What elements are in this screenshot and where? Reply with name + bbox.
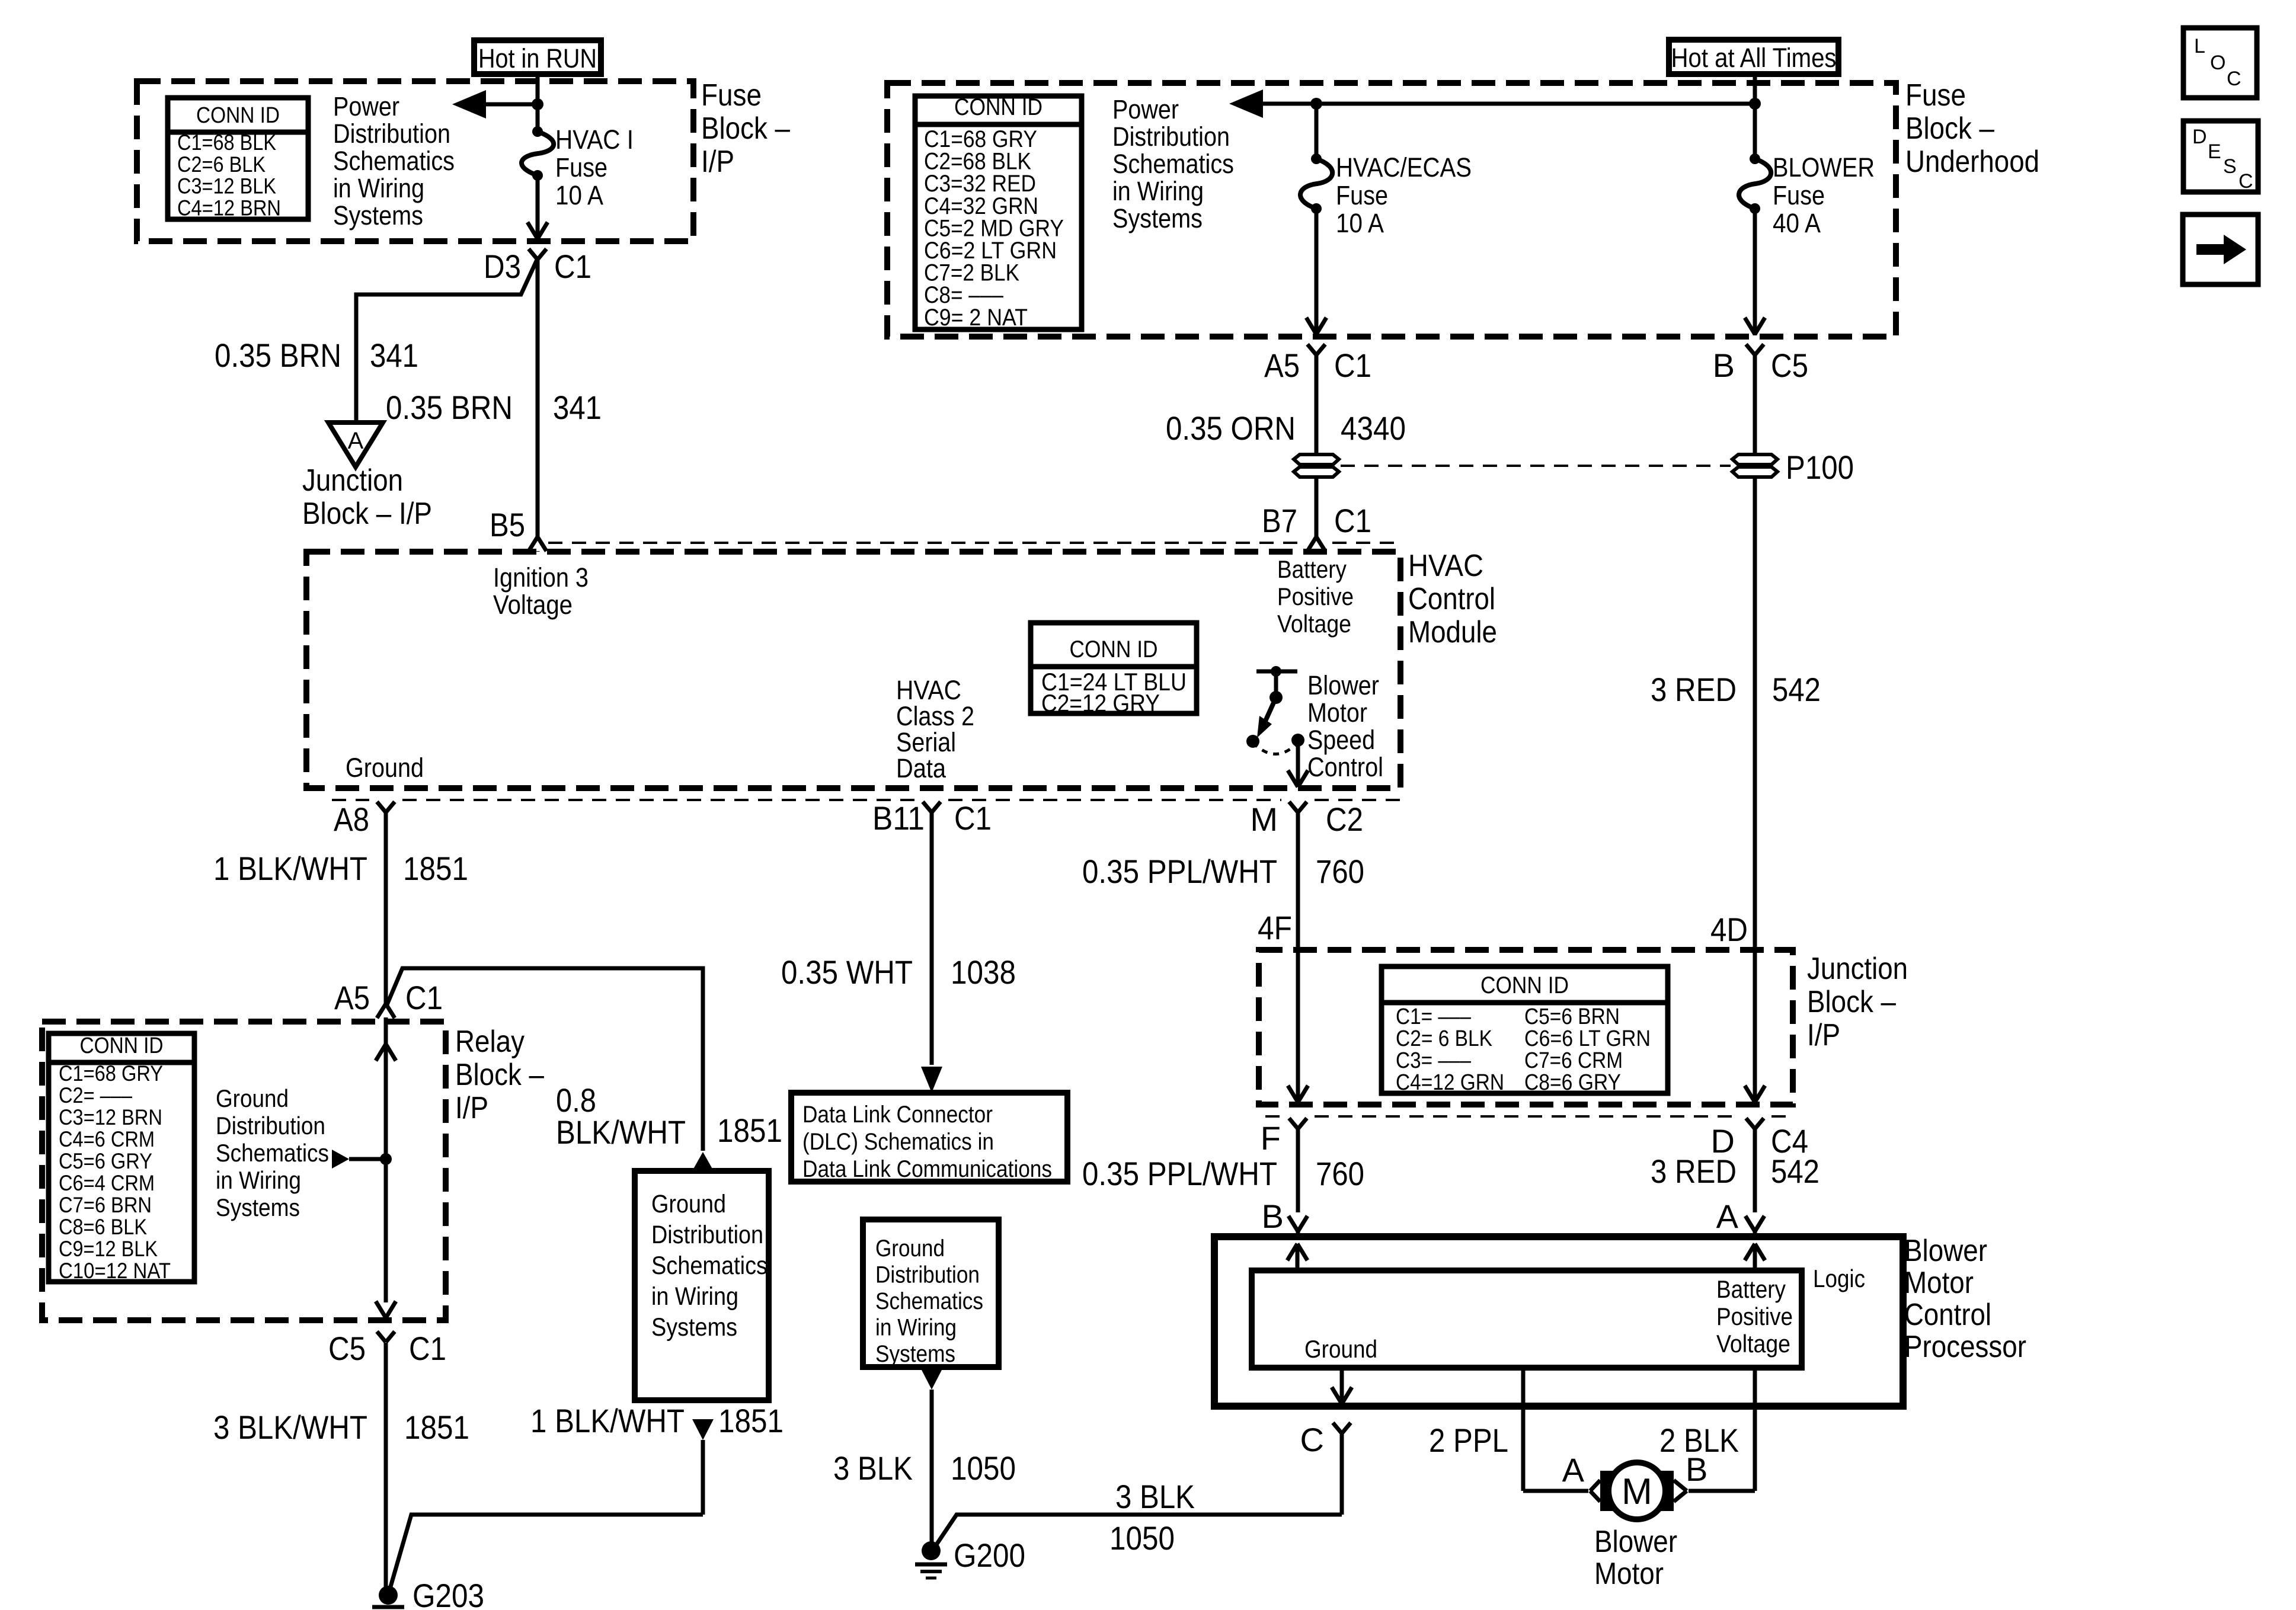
svg-text:Schematics: Schematics xyxy=(333,146,455,176)
svg-text:Systems: Systems xyxy=(1112,203,1203,233)
svg-text:Schematics: Schematics xyxy=(216,1139,329,1167)
svg-text:40 A: 40 A xyxy=(1773,208,1821,238)
svg-text:C1: C1 xyxy=(405,979,443,1016)
svg-text:Voltage: Voltage xyxy=(1716,1330,1790,1358)
svg-text:Systems: Systems xyxy=(875,1341,955,1367)
svg-text:1050: 1050 xyxy=(1109,1519,1175,1557)
svg-text:C5: C5 xyxy=(328,1330,366,1367)
svg-text:Ground: Ground xyxy=(651,1190,726,1218)
svg-text:Schematics: Schematics xyxy=(875,1288,983,1314)
svg-text:3 RED: 3 RED xyxy=(1651,671,1737,708)
svg-text:Distribution: Distribution xyxy=(651,1221,763,1249)
svg-text:Relay: Relay xyxy=(455,1025,525,1059)
svg-text:1038: 1038 xyxy=(951,953,1016,991)
svg-text:M: M xyxy=(1622,1471,1652,1512)
svg-text:C5=6 BRN: C5=6 BRN xyxy=(1524,1004,1620,1029)
svg-text:I/P: I/P xyxy=(455,1091,488,1125)
svg-text:Fuse: Fuse xyxy=(1905,78,1966,113)
svg-text:Voltage: Voltage xyxy=(493,590,573,620)
svg-text:542: 542 xyxy=(1772,671,1821,708)
svg-text:HVAC I: HVAC I xyxy=(555,124,634,155)
svg-text:HVAC/ECAS: HVAC/ECAS xyxy=(1336,152,1472,183)
svg-text:C2=6 BLK: C2=6 BLK xyxy=(177,152,266,177)
svg-text:D: D xyxy=(2192,126,2207,148)
svg-text:Ground: Ground xyxy=(216,1084,289,1112)
svg-text:B5: B5 xyxy=(490,506,525,543)
svg-text:Control: Control xyxy=(1904,1298,1991,1332)
svg-text:C2= –––: C2= ––– xyxy=(59,1083,132,1108)
svg-text:1851: 1851 xyxy=(404,1409,469,1446)
svg-text:C1= –––: C1= ––– xyxy=(1396,1004,1472,1029)
svg-text:Fuse: Fuse xyxy=(1773,180,1825,210)
svg-text:Blower: Blower xyxy=(1594,1525,1677,1559)
svg-text:Positive: Positive xyxy=(1277,582,1354,610)
svg-text:B11: B11 xyxy=(872,799,925,837)
svg-text:4F: 4F xyxy=(1258,909,1292,946)
svg-text:542: 542 xyxy=(1771,1153,1819,1190)
svg-text:P100: P100 xyxy=(1786,449,1854,486)
svg-text:3 BLK: 3 BLK xyxy=(833,1449,913,1487)
svg-text:F: F xyxy=(1261,1119,1281,1157)
svg-text:Block – I/P: Block – I/P xyxy=(302,497,432,531)
svg-text:BLK/WHT: BLK/WHT xyxy=(556,1113,686,1151)
svg-text:0.35 BRN: 0.35 BRN xyxy=(215,337,341,374)
svg-text:1050: 1050 xyxy=(951,1449,1016,1487)
svg-text:in Wiring: in Wiring xyxy=(216,1166,301,1194)
svg-text:C7=6 BRN: C7=6 BRN xyxy=(59,1193,152,1217)
svg-text:C8=6 BLK: C8=6 BLK xyxy=(59,1215,147,1239)
svg-text:Ground: Ground xyxy=(875,1235,945,1262)
svg-text:HVAC: HVAC xyxy=(1408,549,1483,583)
svg-text:D3: D3 xyxy=(484,248,521,285)
svg-text:1 BLK/WHT: 1 BLK/WHT xyxy=(213,850,367,887)
svg-text:Junction: Junction xyxy=(302,463,403,498)
svg-text:CONN ID: CONN ID xyxy=(80,1033,164,1058)
svg-text:Fuse: Fuse xyxy=(1336,180,1388,210)
svg-text:C1: C1 xyxy=(409,1330,446,1367)
svg-text:A: A xyxy=(1716,1198,1739,1235)
svg-text:Control: Control xyxy=(1408,582,1495,616)
svg-text:Data Link Communications: Data Link Communications xyxy=(802,1156,1052,1182)
svg-text:G200: G200 xyxy=(954,1537,1025,1574)
svg-text:Block –: Block – xyxy=(701,111,790,146)
svg-text:0.35 PPL/WHT: 0.35 PPL/WHT xyxy=(1082,1155,1277,1192)
svg-text:M: M xyxy=(1250,801,1278,838)
svg-text:E: E xyxy=(2208,140,2221,163)
svg-text:Power: Power xyxy=(1112,94,1179,124)
svg-text:in Wiring: in Wiring xyxy=(333,173,424,203)
svg-text:C3=12 BLK: C3=12 BLK xyxy=(177,174,276,199)
svg-text:C3= –––: C3= ––– xyxy=(1396,1048,1472,1073)
svg-text:Hot in RUN: Hot in RUN xyxy=(478,43,597,73)
svg-text:4340: 4340 xyxy=(1341,409,1406,447)
svg-text:C7=6 CRM: C7=6 CRM xyxy=(1524,1048,1623,1073)
svg-text:0.35 BRN: 0.35 BRN xyxy=(386,389,513,426)
svg-text:C9=12 BLK: C9=12 BLK xyxy=(59,1237,158,1261)
svg-text:C1=68 BLK: C1=68 BLK xyxy=(177,130,276,155)
svg-text:0.35 ORN: 0.35 ORN xyxy=(1166,409,1296,447)
svg-text:3 BLK/WHT: 3 BLK/WHT xyxy=(213,1409,367,1446)
svg-text:Battery: Battery xyxy=(1277,555,1347,583)
svg-text:3 RED: 3 RED xyxy=(1651,1153,1737,1190)
svg-text:Distribution: Distribution xyxy=(333,119,450,149)
svg-text:Positive: Positive xyxy=(1716,1302,1793,1330)
svg-text:C3=12 BRN: C3=12 BRN xyxy=(59,1105,162,1129)
svg-text:C: C xyxy=(2227,68,2241,90)
svg-text:Systems: Systems xyxy=(333,200,423,231)
svg-text:10 A: 10 A xyxy=(555,180,603,210)
svg-text:I/P: I/P xyxy=(1807,1018,1840,1052)
svg-text:1 BLK/WHT: 1 BLK/WHT xyxy=(530,1402,685,1439)
svg-text:341: 341 xyxy=(553,389,602,426)
svg-text:Processor: Processor xyxy=(1904,1330,2026,1364)
svg-text:1851: 1851 xyxy=(717,1112,782,1149)
svg-text:Distribution: Distribution xyxy=(1112,121,1230,152)
svg-text:Block –: Block – xyxy=(455,1058,544,1092)
svg-text:0.35 WHT: 0.35 WHT xyxy=(781,953,913,991)
svg-text:Systems: Systems xyxy=(651,1313,737,1342)
svg-text:B7: B7 xyxy=(1262,502,1297,539)
svg-text:760: 760 xyxy=(1316,1155,1364,1192)
svg-text:Data Link Connector: Data Link Connector xyxy=(802,1102,993,1128)
svg-text:Schematics: Schematics xyxy=(651,1251,768,1280)
svg-text:C6=4 CRM: C6=4 CRM xyxy=(59,1171,155,1195)
svg-text:C2= 6 BLK: C2= 6 BLK xyxy=(1396,1026,1492,1051)
svg-text:Logic: Logic xyxy=(1813,1265,1865,1292)
svg-text:in Wiring: in Wiring xyxy=(1112,176,1204,206)
svg-text:A5: A5 xyxy=(334,979,370,1016)
svg-text:3 BLK: 3 BLK xyxy=(1115,1478,1195,1515)
svg-text:G203: G203 xyxy=(412,1577,484,1610)
svg-text:Speed: Speed xyxy=(1307,725,1375,755)
svg-text:C4=12 GRN: C4=12 GRN xyxy=(1396,1070,1504,1095)
svg-text:C9= 2 NAT: C9= 2 NAT xyxy=(924,305,1028,331)
svg-text:in Wiring: in Wiring xyxy=(875,1315,957,1341)
svg-text:C5: C5 xyxy=(1771,347,1808,384)
svg-text:Ground: Ground xyxy=(346,753,424,783)
svg-text:C2=12 GRY: C2=12 GRY xyxy=(1041,689,1160,717)
svg-text:Hot at All Times: Hot at All Times xyxy=(1671,43,1837,73)
svg-text:Fuse: Fuse xyxy=(555,152,607,183)
svg-text:I/P: I/P xyxy=(701,145,734,179)
svg-text:C2: C2 xyxy=(1326,801,1363,838)
svg-text:L: L xyxy=(2194,35,2205,57)
svg-text:C4=6 CRM: C4=6 CRM xyxy=(59,1127,155,1151)
svg-text:760: 760 xyxy=(1316,853,1364,890)
svg-text:C8=6 GRY: C8=6 GRY xyxy=(1524,1070,1621,1095)
svg-text:C1: C1 xyxy=(554,248,591,285)
svg-text:B: B xyxy=(1686,1451,1707,1488)
svg-text:CONN ID: CONN ID xyxy=(1480,972,1569,998)
svg-text:Distribution: Distribution xyxy=(216,1112,325,1140)
svg-text:Blower: Blower xyxy=(1307,670,1379,700)
svg-text:A8: A8 xyxy=(334,801,369,838)
svg-text:Control: Control xyxy=(1307,752,1383,782)
svg-text:CONN ID: CONN ID xyxy=(1070,636,1158,662)
svg-text:BLOWER: BLOWER xyxy=(1773,152,1875,183)
svg-text:Junction: Junction xyxy=(1807,952,1908,986)
svg-text:Distribution: Distribution xyxy=(875,1262,980,1288)
svg-text:C5=6 GRY: C5=6 GRY xyxy=(59,1149,152,1173)
svg-text:CONN ID: CONN ID xyxy=(196,103,280,128)
svg-text:C4=12 BRN: C4=12 BRN xyxy=(177,196,281,220)
svg-text:4D: 4D xyxy=(1710,911,1748,948)
svg-text:Motor: Motor xyxy=(1594,1557,1664,1591)
svg-text:C1: C1 xyxy=(1334,502,1371,539)
svg-text:Blower: Blower xyxy=(1904,1234,1987,1268)
svg-text:C: C xyxy=(1300,1421,1324,1458)
svg-text:Data: Data xyxy=(896,753,946,783)
svg-text:B: B xyxy=(1713,347,1735,384)
svg-text:C1: C1 xyxy=(954,799,992,837)
svg-text:0.35 PPL/WHT: 0.35 PPL/WHT xyxy=(1082,853,1277,890)
svg-text:10 A: 10 A xyxy=(1336,208,1384,238)
svg-text:S: S xyxy=(2223,155,2237,178)
svg-text:Block –: Block – xyxy=(1905,111,1994,146)
svg-text:C1: C1 xyxy=(1334,347,1371,384)
svg-text:1851: 1851 xyxy=(403,850,468,887)
svg-text:C10=12 NAT: C10=12 NAT xyxy=(59,1259,171,1283)
svg-text:Underhood: Underhood xyxy=(1905,145,2039,179)
svg-text:341: 341 xyxy=(370,337,418,374)
svg-text:A5: A5 xyxy=(1264,347,1300,384)
svg-text:B: B xyxy=(1262,1198,1284,1235)
svg-text:Block –: Block – xyxy=(1807,985,1896,1019)
svg-text:Module: Module xyxy=(1408,615,1497,649)
svg-text:C6=6 LT GRN: C6=6 LT GRN xyxy=(1524,1026,1651,1051)
svg-text:Voltage: Voltage xyxy=(1277,610,1351,638)
svg-text:Systems: Systems xyxy=(216,1193,300,1221)
svg-text:Power: Power xyxy=(333,91,399,121)
svg-text:CONN ID: CONN ID xyxy=(954,94,1043,120)
svg-text:Ground: Ground xyxy=(1304,1335,1377,1363)
svg-text:Ignition 3: Ignition 3 xyxy=(493,562,589,593)
svg-text:Battery: Battery xyxy=(1716,1275,1786,1303)
svg-text:Schematics: Schematics xyxy=(1112,149,1234,179)
svg-text:A: A xyxy=(1562,1451,1585,1489)
svg-text:C: C xyxy=(2239,170,2253,193)
svg-text:(DLC) Schematics in: (DLC) Schematics in xyxy=(802,1129,994,1155)
svg-text:O: O xyxy=(2210,52,2225,74)
svg-text:in Wiring: in Wiring xyxy=(651,1282,738,1311)
svg-text:Fuse: Fuse xyxy=(701,78,762,113)
svg-text:Motor: Motor xyxy=(1904,1266,1974,1300)
svg-text:C1=68 GRY: C1=68 GRY xyxy=(59,1061,163,1086)
svg-text:Motor: Motor xyxy=(1307,697,1367,728)
svg-text:A: A xyxy=(348,428,364,454)
svg-text:1851: 1851 xyxy=(718,1402,784,1439)
svg-text:2 PPL: 2 PPL xyxy=(1429,1422,1508,1459)
